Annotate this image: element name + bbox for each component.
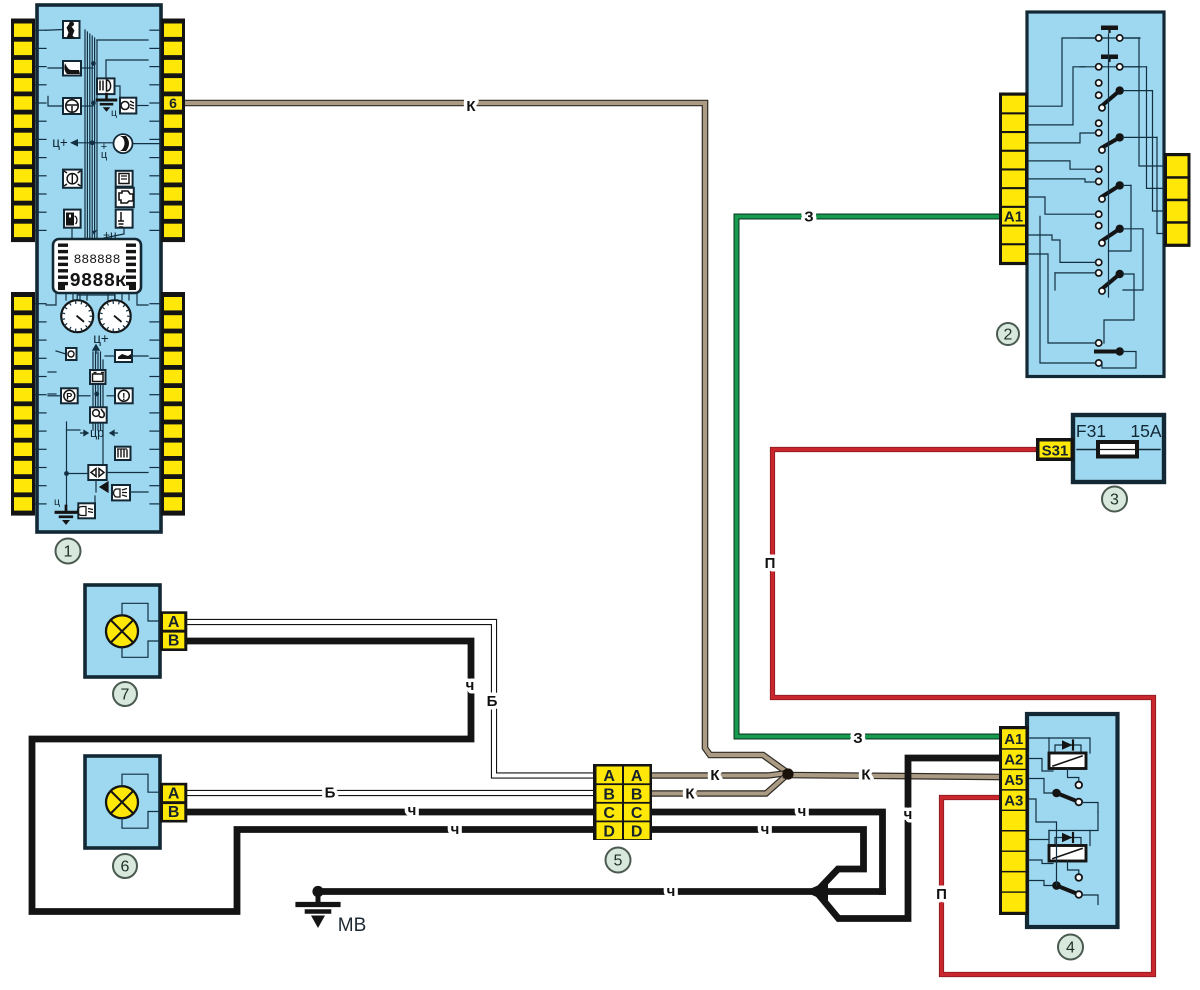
svg-text:З: З bbox=[853, 730, 862, 747]
svg-text:ц+: ц+ bbox=[52, 135, 68, 150]
svg-text:D: D bbox=[631, 824, 643, 841]
svg-text:B: B bbox=[631, 787, 643, 804]
svg-text:B: B bbox=[603, 787, 615, 804]
svg-text:A: A bbox=[168, 786, 180, 803]
svg-text:2: 2 bbox=[1004, 327, 1013, 344]
svg-text:4: 4 bbox=[1066, 940, 1075, 957]
svg-text:A5: A5 bbox=[1004, 772, 1023, 789]
svg-text:9888к: 9888к bbox=[69, 270, 126, 292]
svg-text:6: 6 bbox=[121, 859, 130, 876]
svg-text:1: 1 bbox=[64, 544, 73, 561]
svg-text:ц+: ц+ bbox=[93, 331, 109, 346]
svg-text:П: П bbox=[936, 886, 947, 903]
svg-text:A3: A3 bbox=[1004, 792, 1023, 809]
svg-text:3: 3 bbox=[1110, 492, 1119, 509]
svg-text:З: З bbox=[804, 209, 813, 226]
svg-text:ч: ч bbox=[798, 803, 807, 820]
svg-text:К: К bbox=[685, 786, 695, 803]
svg-text:F31: F31 bbox=[1076, 421, 1106, 441]
svg-text:A2: A2 bbox=[1004, 751, 1023, 768]
svg-text:ч: ч bbox=[408, 802, 417, 819]
svg-text:ц: ц bbox=[54, 496, 60, 508]
svg-text:цр: цр bbox=[90, 426, 104, 440]
svg-text:К: К bbox=[710, 767, 720, 784]
svg-text:C: C bbox=[631, 805, 643, 822]
svg-text:ч: ч bbox=[761, 821, 770, 838]
svg-text:Б: Б bbox=[325, 785, 336, 802]
svg-text:D: D bbox=[603, 824, 615, 841]
svg-text:5: 5 bbox=[614, 853, 623, 870]
svg-text:П: П bbox=[765, 555, 776, 572]
svg-text:ч: ч bbox=[451, 821, 460, 838]
svg-text:A: A bbox=[603, 768, 615, 785]
svg-text:C: C bbox=[603, 805, 615, 822]
svg-text:15A: 15A bbox=[1130, 421, 1161, 441]
svg-text:ч: ч bbox=[667, 883, 676, 900]
svg-text:888888: 888888 bbox=[74, 252, 121, 267]
svg-text:A1: A1 bbox=[1004, 731, 1023, 748]
svg-text:ч: ч bbox=[466, 677, 475, 694]
svg-text:ч: ч bbox=[904, 806, 913, 823]
svg-text:S31: S31 bbox=[1042, 443, 1069, 460]
svg-text:6: 6 bbox=[169, 95, 177, 111]
svg-text:ц: ц bbox=[111, 107, 117, 119]
svg-text:P: P bbox=[66, 392, 72, 402]
svg-text:7: 7 bbox=[121, 687, 130, 704]
svg-text:!: ! bbox=[122, 392, 125, 403]
svg-text:К: К bbox=[466, 98, 476, 115]
svg-text:К: К bbox=[861, 767, 871, 784]
svg-text:A: A bbox=[168, 614, 180, 631]
svg-text:Б: Б bbox=[487, 693, 498, 710]
svg-text:ц: ц bbox=[101, 149, 108, 161]
svg-text:B: B bbox=[168, 804, 180, 821]
svg-text:A: A bbox=[631, 768, 643, 785]
svg-text:B: B bbox=[168, 633, 180, 650]
svg-text:МВ: МВ bbox=[338, 915, 367, 936]
svg-text:A1: A1 bbox=[1004, 208, 1023, 225]
